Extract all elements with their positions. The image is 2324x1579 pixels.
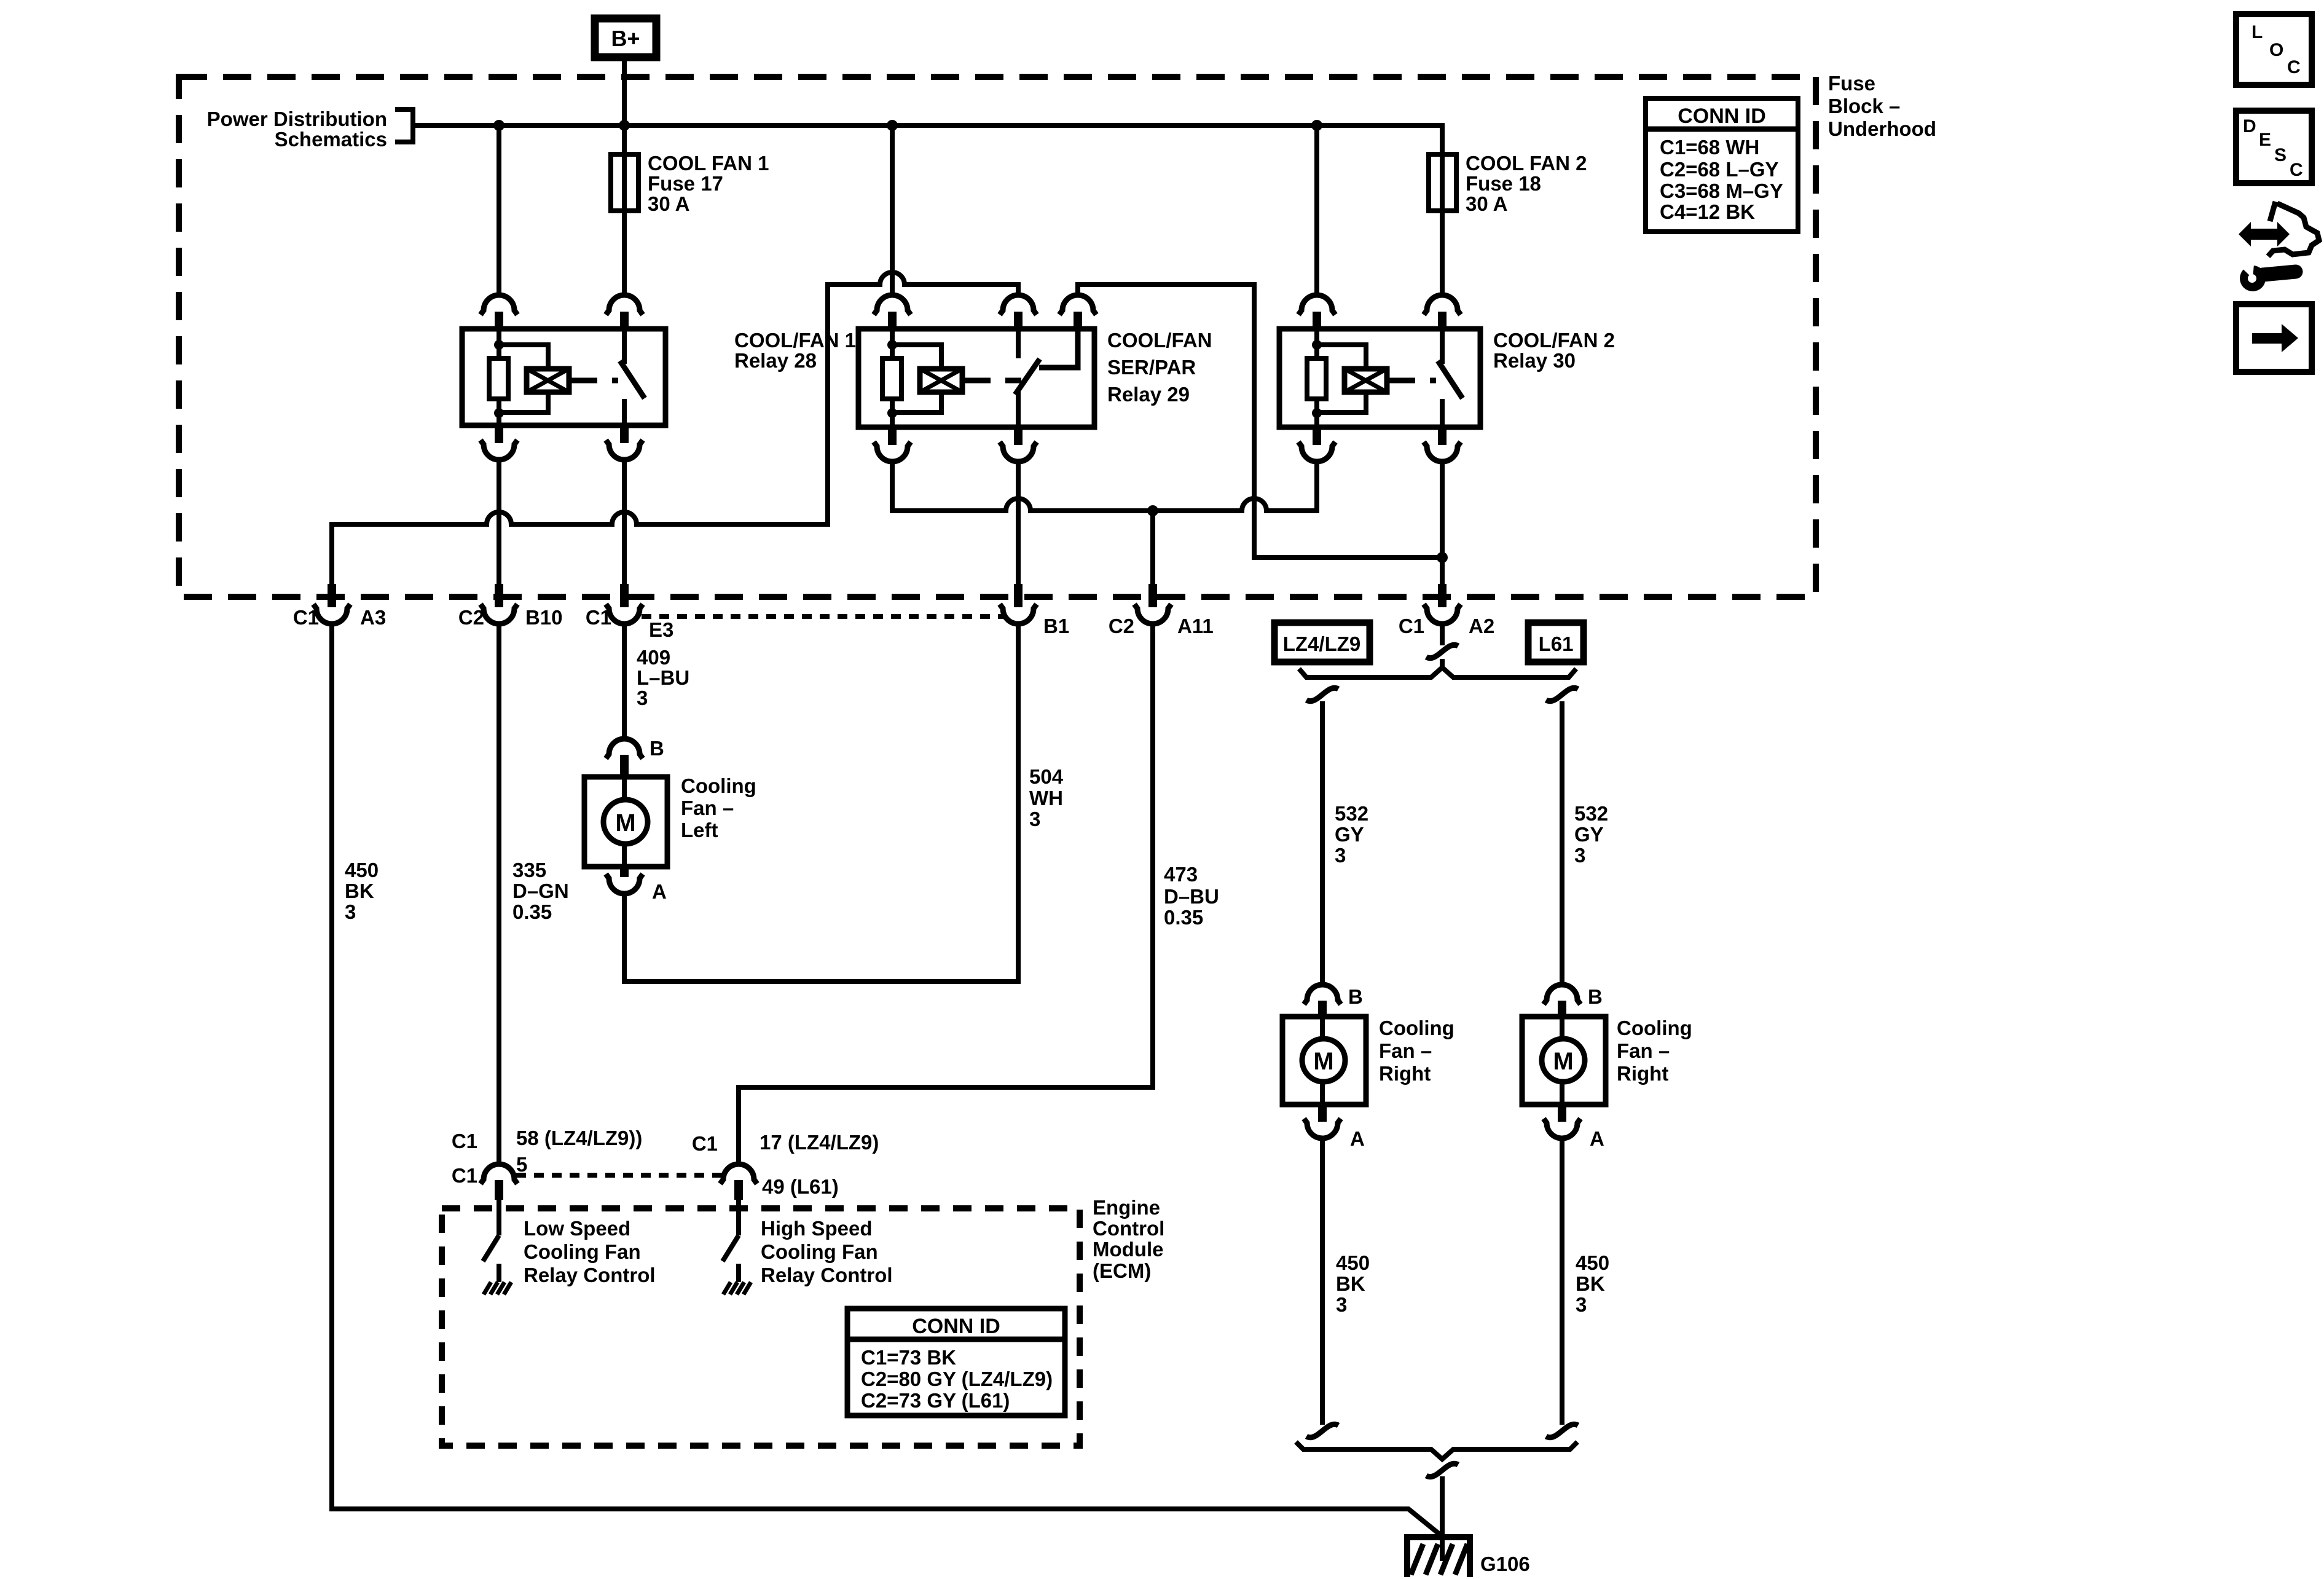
svg-text:B10: B10 bbox=[525, 606, 563, 629]
relay30 coil pin bottom connector bbox=[1313, 427, 1321, 445]
svg-text:C1=68 WH: C1=68 WH bbox=[1660, 136, 1759, 159]
wire 450 BK ground run from A3 to G106 bbox=[332, 623, 1441, 1535]
svg-text:409: 409 bbox=[637, 646, 670, 669]
svg-text:High Speed: High Speed bbox=[761, 1217, 873, 1240]
wrench icon bbox=[2263, 272, 2296, 275]
svg-text:D–BU: D–BU bbox=[1164, 885, 1219, 908]
svg-text:E: E bbox=[2259, 130, 2271, 150]
wire bus to fuse17 to relay28 switch bbox=[622, 125, 627, 295]
svg-text:O: O bbox=[2269, 40, 2283, 60]
wire bus to relay30 coil pin bbox=[1314, 125, 1319, 295]
svg-text:COOL/FAN 1: COOL/FAN 1 bbox=[734, 329, 856, 352]
relay29 NO pin top connector bbox=[1059, 295, 1096, 315]
junction dot relay29 coil to ECM A11 tap bbox=[1147, 505, 1158, 516]
svg-text:3: 3 bbox=[1336, 1293, 1347, 1316]
junction dot relay30 switch output and relay29 NO bbox=[1437, 552, 1448, 563]
svg-text:Fan –: Fan – bbox=[1379, 1039, 1432, 1062]
svg-text:C: C bbox=[2287, 57, 2301, 77]
double arrow icon bbox=[2239, 222, 2290, 246]
cooling fan left motor wires bbox=[622, 777, 627, 801]
svg-text:L61: L61 bbox=[1539, 632, 1574, 655]
svg-text:WH: WH bbox=[1029, 787, 1063, 809]
LOC navigation box bbox=[2236, 14, 2312, 85]
wire A11 to ECM high speed input bbox=[739, 623, 1153, 1165]
svg-text:Relay Control: Relay Control bbox=[524, 1264, 656, 1286]
svg-text:LZ4/LZ9: LZ4/LZ9 bbox=[1283, 632, 1361, 655]
svg-text:30 A: 30 A bbox=[1466, 192, 1507, 215]
B+ battery positive terminal box bbox=[595, 18, 656, 57]
wire ground stem bbox=[1440, 1476, 1445, 1561]
svg-text:Block –: Block – bbox=[1828, 95, 1900, 117]
wire B+ terminal to bus bbox=[622, 58, 627, 128]
svg-text:Relay 28: Relay 28 bbox=[734, 349, 817, 372]
svg-text:Cooling: Cooling bbox=[1617, 1017, 1692, 1039]
svg-text:A2: A2 bbox=[1469, 615, 1494, 637]
ECM CONN ID table box bbox=[847, 1309, 1065, 1416]
svg-text:450: 450 bbox=[1336, 1251, 1370, 1274]
svg-text:Underhood: Underhood bbox=[1828, 117, 1936, 140]
relay29 common pin bottom connector bbox=[1014, 427, 1023, 445]
svg-text:Cooling Fan: Cooling Fan bbox=[761, 1240, 878, 1263]
svg-text:5: 5 bbox=[516, 1153, 527, 1176]
svg-text:C1=73 BK: C1=73 BK bbox=[861, 1346, 956, 1369]
svg-text:450: 450 bbox=[1576, 1251, 1609, 1274]
connector C1 terminal A2 bbox=[1438, 584, 1447, 607]
connector C2 terminal B10 bbox=[495, 584, 503, 607]
svg-text:Fan –: Fan – bbox=[1617, 1039, 1670, 1062]
svg-text:B: B bbox=[1588, 985, 1603, 1008]
svg-text:Cooling: Cooling bbox=[681, 774, 756, 797]
connector C1 terminal A3 bbox=[328, 584, 336, 607]
junction dot bus to relay28 coil bbox=[493, 120, 504, 131]
connector C1 terminal E3 bbox=[620, 584, 629, 607]
svg-text:SER/PAR: SER/PAR bbox=[1107, 356, 1196, 379]
wire relay28 coil bottom to connector B10 bbox=[497, 460, 501, 585]
relay28 switch pin top connector bbox=[606, 295, 643, 315]
option split brace top bbox=[1299, 667, 1576, 677]
cooling fan left pin A connector bbox=[620, 867, 629, 877]
relay30 actuator dashed link bbox=[1398, 378, 1436, 384]
svg-text:3: 3 bbox=[1574, 844, 1585, 867]
svg-text:Fuse 18: Fuse 18 bbox=[1466, 172, 1541, 195]
svg-text:M: M bbox=[1313, 1048, 1333, 1075]
cooling fan left motor circle M bbox=[603, 800, 648, 844]
forward arrow icon bbox=[2252, 324, 2298, 352]
svg-text:Engine: Engine bbox=[1093, 1196, 1160, 1219]
wire E3 to cooling fan left pin B bbox=[622, 623, 627, 739]
svg-text:BK: BK bbox=[1576, 1272, 1605, 1295]
svg-text:E3: E3 bbox=[649, 618, 673, 641]
relay K29 COOL/FAN SER/PAR box bbox=[858, 329, 1094, 427]
connector terminal B1 bbox=[1014, 584, 1023, 607]
svg-text:Schematics: Schematics bbox=[275, 128, 387, 151]
svg-text:504: 504 bbox=[1029, 765, 1064, 788]
svg-text:335: 335 bbox=[512, 859, 546, 881]
svg-text:M: M bbox=[1553, 1048, 1573, 1075]
svg-text:A: A bbox=[652, 880, 667, 903]
wire A2 to option brace bbox=[1440, 659, 1445, 669]
dotted connector face line E3 to B1 bbox=[642, 614, 1003, 619]
svg-text:0.35: 0.35 bbox=[1164, 906, 1203, 929]
car outline icon bbox=[2270, 202, 2275, 221]
relay30 switch pin bottom connector bbox=[1438, 427, 1447, 445]
splice break mark at ground stem bbox=[1426, 1463, 1458, 1476]
svg-text:30 A: 30 A bbox=[648, 192, 689, 215]
svg-text:3: 3 bbox=[345, 900, 356, 923]
connector C2 terminal A11 bbox=[1148, 584, 1157, 607]
svg-text:COOL/FAN: COOL/FAN bbox=[1107, 329, 1212, 352]
svg-text:COOL FAN 2: COOL FAN 2 bbox=[1466, 152, 1587, 175]
svg-text:COOL/FAN 2: COOL/FAN 2 bbox=[1493, 329, 1615, 352]
DESC navigation box bbox=[2236, 111, 2312, 183]
wire bus to relay29 coil pin bbox=[890, 125, 895, 295]
svg-text:Cooling Fan: Cooling Fan bbox=[524, 1240, 641, 1263]
junction dot bus to relay29 coil bbox=[887, 120, 898, 131]
svg-text:Module: Module bbox=[1093, 1238, 1163, 1261]
ECM low speed input connector C1 bbox=[481, 1164, 517, 1184]
svg-text:C2=73 GY (L61): C2=73 GY (L61) bbox=[861, 1389, 1010, 1412]
relay28 switch pin bottom connector bbox=[620, 425, 629, 443]
engine control module dashed box bbox=[442, 1208, 1080, 1446]
branch break mark right 532 wire bbox=[1546, 688, 1578, 701]
wire fan right 1 pin A down bbox=[1320, 1139, 1325, 1425]
wire bus corner to fuse18 to relay30 switch bbox=[1440, 125, 1445, 295]
svg-text:C1: C1 bbox=[586, 606, 611, 629]
wire connector A3 up and across to relay29 common (jumps relay28 wires) bbox=[332, 272, 1018, 585]
wire relay29 coil bottom across to relay30 coil (jumps crossing wires) bbox=[892, 460, 1317, 511]
svg-text:C1: C1 bbox=[293, 606, 319, 629]
svg-text:D: D bbox=[2243, 116, 2256, 136]
svg-text:Fan –: Fan – bbox=[681, 797, 734, 819]
svg-text:Right: Right bbox=[1379, 1062, 1431, 1085]
relay30 switch pin top connector bbox=[1424, 295, 1461, 315]
branch break mark left 532 wire bbox=[1306, 688, 1338, 701]
svg-text:17 (LZ4/LZ9): 17 (LZ4/LZ9) bbox=[760, 1131, 879, 1154]
svg-text:Fuse: Fuse bbox=[1828, 72, 1875, 95]
svg-text:473: 473 bbox=[1164, 863, 1198, 886]
svg-text:L–BU: L–BU bbox=[637, 666, 689, 689]
svg-text:C2: C2 bbox=[1109, 615, 1134, 637]
svg-text:58 (LZ4/LZ9)): 58 (LZ4/LZ9)) bbox=[516, 1127, 642, 1149]
svg-text:A: A bbox=[1350, 1127, 1365, 1150]
ground symbol G106 bbox=[1404, 1534, 1473, 1540]
svg-text:GY: GY bbox=[1335, 823, 1364, 846]
dotted connector face line between ECM inputs bbox=[516, 1173, 723, 1178]
svg-text:3: 3 bbox=[1335, 844, 1346, 867]
svg-text:S: S bbox=[2274, 145, 2287, 165]
svg-text:B: B bbox=[1348, 985, 1363, 1008]
relay28 coil and resistor bbox=[497, 329, 501, 425]
branch break mark above brace right bbox=[1546, 1424, 1578, 1437]
fuse block - underhood dashed boundary box bbox=[179, 77, 1816, 597]
relay29 actuator dashed link bbox=[973, 378, 1021, 384]
L61 engine option box bbox=[1528, 623, 1584, 662]
svg-text:C2=80 GY (LZ4/LZ9): C2=80 GY (LZ4/LZ9) bbox=[861, 1368, 1053, 1390]
splice break mark at A2 bbox=[1426, 645, 1458, 658]
svg-text:3: 3 bbox=[1576, 1293, 1587, 1316]
svg-text:A11: A11 bbox=[1177, 615, 1214, 637]
forward arrow navigation box bbox=[2236, 304, 2312, 372]
svg-text:B1: B1 bbox=[1043, 615, 1069, 637]
ECM low speed cooling fan relay control switch to ground bbox=[497, 1200, 501, 1235]
svg-text:B: B bbox=[650, 737, 664, 760]
svg-text:A3: A3 bbox=[360, 606, 386, 629]
svg-text:G106: G106 bbox=[1480, 1553, 1530, 1575]
cooling fan left pin B connector bbox=[606, 739, 643, 758]
svg-text:450: 450 bbox=[345, 859, 379, 881]
svg-text:Control: Control bbox=[1093, 1217, 1164, 1240]
svg-text:BK: BK bbox=[345, 880, 374, 902]
svg-text:C1: C1 bbox=[452, 1164, 477, 1187]
svg-text:A: A bbox=[1590, 1127, 1604, 1150]
svg-text:0.35: 0.35 bbox=[512, 900, 552, 923]
cooling fan right motor 1 (LZ4/LZ9) bbox=[1304, 985, 1341, 1004]
wire fan right 2 pin A down bbox=[1560, 1139, 1564, 1425]
relay28 coil pin bottom connector bbox=[495, 425, 503, 443]
svg-text:Fuse 17: Fuse 17 bbox=[648, 172, 723, 195]
wire A2 out of fuse block bbox=[1440, 623, 1445, 645]
relay28 coil pin top connector bbox=[481, 295, 517, 315]
wire B10 to ECM low speed input bbox=[497, 623, 501, 1165]
power distribution bus wire bbox=[413, 125, 1442, 154]
relay28 switch contacts and blade bbox=[622, 329, 627, 364]
svg-text:C1: C1 bbox=[692, 1132, 718, 1155]
fuse F18 bbox=[1429, 154, 1456, 211]
wire junction to connector A11 bbox=[1150, 511, 1155, 585]
wire relay30 switch bottom to connector A2 bbox=[1440, 460, 1445, 585]
relay29 coil pin top connector bbox=[874, 295, 911, 315]
wire 532 GY left to fan right 1 bbox=[1320, 701, 1325, 985]
branch break mark above brace left bbox=[1306, 1424, 1338, 1437]
ECM high speed cooling fan relay control switch to ground bbox=[736, 1200, 741, 1235]
relay K28 COOL/FAN 1 box bbox=[462, 329, 665, 425]
svg-text:C4=12 BK: C4=12 BK bbox=[1660, 200, 1755, 223]
svg-text:(ECM): (ECM) bbox=[1093, 1259, 1151, 1282]
svg-text:Relay 29: Relay 29 bbox=[1107, 383, 1190, 406]
svg-text:C3=68 M–GY: C3=68 M–GY bbox=[1660, 179, 1783, 202]
svg-text:GY: GY bbox=[1574, 823, 1604, 846]
svg-text:C: C bbox=[2290, 160, 2303, 180]
svg-text:3: 3 bbox=[637, 687, 648, 709]
relay K30 COOL/FAN 2 box bbox=[1279, 329, 1480, 427]
relay30 coil and resistor bbox=[1314, 329, 1319, 427]
wire fan left pin A loop to B1 (504 WH) bbox=[624, 623, 1018, 982]
option merge brace bottom bbox=[1296, 1442, 1577, 1459]
relay29 switch contacts and blade bbox=[1016, 329, 1021, 358]
svg-text:CONN ID: CONN ID bbox=[912, 1315, 1000, 1338]
svg-text:D–GN: D–GN bbox=[512, 880, 569, 902]
svg-text:Low Speed: Low Speed bbox=[524, 1217, 630, 1240]
cooling fan left motor box bbox=[584, 777, 667, 867]
bracket to power distribution schematics bbox=[395, 109, 413, 142]
junction dot bus to relay30 coil bbox=[1311, 120, 1322, 131]
svg-text:3: 3 bbox=[1029, 808, 1040, 830]
svg-text:Right: Right bbox=[1617, 1062, 1668, 1085]
relay30 coil pin top connector bbox=[1298, 295, 1335, 315]
svg-text:B+: B+ bbox=[611, 26, 640, 51]
svg-text:M: M bbox=[615, 809, 635, 837]
relay30 switch contacts and blade bbox=[1440, 329, 1445, 364]
svg-text:CONN ID: CONN ID bbox=[1678, 104, 1766, 128]
svg-text:C1: C1 bbox=[452, 1130, 477, 1152]
svg-text:Relay 30: Relay 30 bbox=[1493, 349, 1576, 372]
svg-text:BK: BK bbox=[1336, 1272, 1365, 1295]
wire relay28 switch bottom to connector E3 bbox=[622, 460, 627, 585]
relay29 coil and resistor bbox=[890, 329, 895, 427]
wire bus to relay28 coil pin bbox=[497, 125, 501, 295]
svg-text:Relay Control: Relay Control bbox=[761, 1264, 893, 1286]
fuse block CONN ID table box bbox=[1646, 98, 1798, 232]
relay28 actuator dashed link bbox=[580, 378, 618, 384]
fuse F17 bbox=[611, 154, 638, 211]
ECM high speed input connector C1 bbox=[720, 1164, 757, 1184]
svg-text:49 (L61): 49 (L61) bbox=[762, 1175, 839, 1198]
LZ4/LZ9 engine option box bbox=[1274, 623, 1370, 662]
svg-text:L: L bbox=[2251, 22, 2263, 42]
svg-text:Power Distribution: Power Distribution bbox=[207, 108, 387, 130]
cooling fan right motor 2 (L61) bbox=[1544, 985, 1580, 1004]
relay29 coil pin bottom connector bbox=[888, 427, 897, 445]
svg-text:Left: Left bbox=[681, 819, 718, 841]
svg-text:C2=68 L–GY: C2=68 L–GY bbox=[1660, 158, 1779, 181]
wire 532 GY right to fan right 2 bbox=[1560, 701, 1564, 985]
svg-text:532: 532 bbox=[1335, 802, 1368, 825]
svg-text:C2: C2 bbox=[458, 606, 484, 629]
svg-text:532: 532 bbox=[1574, 802, 1608, 825]
wire relay29 NO contact to A2 junction bbox=[1078, 285, 1442, 557]
relay29 common pin top connector bbox=[1000, 295, 1037, 315]
svg-text:COOL FAN 1: COOL FAN 1 bbox=[648, 152, 769, 175]
svg-text:C1: C1 bbox=[1399, 615, 1424, 637]
wire relay29 common bottom to connector B1 bbox=[1016, 460, 1021, 585]
svg-text:Cooling: Cooling bbox=[1379, 1017, 1454, 1039]
junction dot bus at B+ feed bbox=[619, 120, 630, 131]
